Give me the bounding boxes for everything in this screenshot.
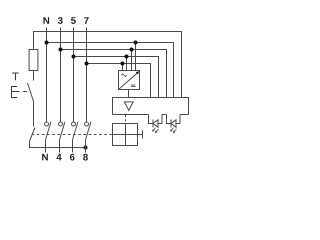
LED D2 triangle <box>171 120 176 127</box>
wire pole 7 vertical <box>86 28 88 123</box>
trip linkage dash-dot relay to mechanism <box>125 115 127 124</box>
wire tap from 7 line to module <box>122 64 124 71</box>
node test line to pole 8 junction <box>84 146 88 150</box>
wire N branch <box>47 43 174 98</box>
mechanical link push-button to contact <box>12 91 20 93</box>
label 6 (bottom) <box>70 154 75 161</box>
label 8 (bottom) <box>83 154 88 161</box>
contact circle pole 6 <box>72 122 76 126</box>
LED D1 emission arrows <box>153 128 156 132</box>
mechanism end bar <box>142 131 144 139</box>
node 7 branch junction <box>85 62 89 66</box>
contact circle pole 8 <box>85 122 89 126</box>
wire pole N vertical <box>46 28 48 123</box>
mechanism cross horizontal arm <box>110 134 143 136</box>
blade pole 4 <box>60 122 65 140</box>
label 7 (top) <box>84 17 89 24</box>
wire 3 branch <box>61 50 167 98</box>
wire tap from 3 line to module <box>131 50 133 71</box>
LED D1 pocket <box>149 115 163 124</box>
converter DC symbol <box>131 84 135 86</box>
node tap 5 junction <box>125 55 129 59</box>
aux contact blade (test circuit) <box>30 128 36 142</box>
blade pole 6 <box>73 122 78 140</box>
converter module U1 (AC/DC) <box>119 71 140 90</box>
wire pole 4 lower stub <box>59 140 61 153</box>
LED D1 triangle <box>153 120 158 127</box>
label N (top) <box>43 17 49 24</box>
label 5 (top) <box>71 17 76 24</box>
wire test branch (resistor line, outer loop) <box>34 32 182 98</box>
node tap 7 junction <box>121 62 125 66</box>
label 4 (bottom) <box>56 154 61 161</box>
wire module to relay <box>128 90 130 98</box>
converter diagonal arrowhead <box>136 71 140 74</box>
converter diagonal <box>119 72 139 90</box>
node tap 3 junction <box>130 48 134 52</box>
wire tap from 5 line to module <box>126 57 128 71</box>
blade pole 8 <box>86 122 91 140</box>
wire aux contact to bottom test line <box>30 141 86 148</box>
wire pole 8 lower stub <box>85 140 87 153</box>
trip relay K1 <box>113 98 189 115</box>
relay bottom edge segments <box>113 114 149 116</box>
LED D2 cathode bar <box>170 120 172 128</box>
LED D2 emission arrows <box>171 128 174 132</box>
LED D1 cathode bar <box>152 120 154 128</box>
wire 5 branch <box>74 57 159 98</box>
relay triangle symbol <box>124 102 133 111</box>
node tap N junction <box>134 41 138 45</box>
label 3 (top) <box>58 17 63 24</box>
test contact blade <box>28 83 34 102</box>
label N (bottom) <box>42 154 48 161</box>
wire pole N lower stub <box>45 140 47 153</box>
wire pole 6 lower stub <box>72 140 74 153</box>
wire tap from N line to module <box>135 43 137 71</box>
blade pole N <box>46 122 51 140</box>
contact circle pole N <box>45 122 49 126</box>
LED D2 pocket <box>167 115 181 124</box>
node 3 branch junction <box>59 48 63 52</box>
push-button actuator E symbol <box>12 87 18 98</box>
mechanism cross vertical <box>125 124 127 146</box>
contact circle pole 4 <box>59 122 63 126</box>
converter AC symbol <box>122 74 127 76</box>
node N branch junction <box>45 41 49 45</box>
node 5 branch junction <box>72 55 76 59</box>
wire resistor to test contact <box>33 71 35 81</box>
wire 7 branch <box>87 64 151 98</box>
wire pole 5 vertical <box>73 28 75 123</box>
wire pole 3 vertical <box>60 28 62 123</box>
label T (test button) <box>12 73 18 80</box>
resistor R (test resistor) <box>29 50 38 71</box>
mechanism dashed link line <box>32 134 111 136</box>
wire test contact to aux contact <box>33 102 35 127</box>
mechanism block (square with cross) <box>113 124 138 146</box>
